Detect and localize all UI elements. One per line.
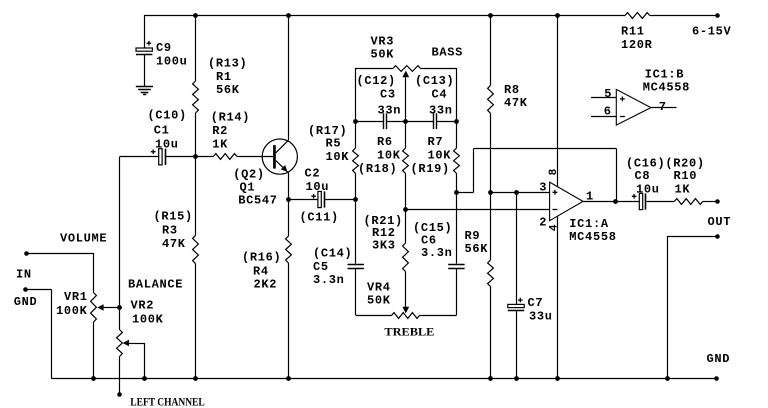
node rail-pin8: [555, 13, 560, 18]
svg-text:(C13): (C13): [415, 74, 454, 88]
svg-text:(R18): (R18): [358, 162, 397, 176]
resistor R3: [193, 235, 199, 263]
wire C5 to treble bottom: [355, 268, 357, 315]
wire C6 to treble bottom: [456, 268, 458, 315]
svg-text:3: 3: [539, 180, 547, 194]
node R9-ground: [488, 376, 493, 381]
resistor R1: [193, 81, 199, 113]
node LEFT CHANNEL stub: [117, 392, 122, 397]
capacitor C9: [136, 48, 152, 51]
svg-text:47K: 47K: [504, 96, 528, 110]
svg-text:(R15): (R15): [154, 210, 193, 224]
wire pin5 stub: [591, 97, 616, 99]
resistor R11: [625, 13, 650, 19]
svg-text:5: 5: [604, 87, 612, 101]
svg-text:MC4558: MC4558: [569, 230, 616, 244]
wire top supply rail left segment: [144, 15, 625, 17]
wire +input to C7: [516, 192, 518, 304]
wire pin6 stub: [591, 116, 616, 118]
node bass row right: [454, 119, 459, 124]
resistor R2: [213, 154, 237, 160]
wire emitter node to R4: [288, 200, 290, 237]
svg-text:6: 6: [604, 105, 612, 119]
wire wiper node to VR2: [119, 308, 121, 330]
wire feedback riser: [473, 148, 475, 192]
node OUT ground terminal: [715, 234, 720, 239]
svg-text:(R16): (R16): [242, 250, 281, 264]
svg-text:3K3: 3K3: [372, 239, 396, 253]
resistor R10: [674, 199, 702, 205]
wire OUT ground horizontal: [668, 236, 718, 238]
wire R8 to +input node: [490, 113, 492, 192]
wire pin7 output stub: [651, 107, 677, 109]
wire bass box right side: [456, 68, 458, 148]
svg-text:C9: C9: [156, 41, 172, 55]
svg-text:10K: 10K: [428, 149, 452, 163]
svg-text:50K: 50K: [371, 47, 395, 61]
svg-text:R2: R2: [212, 124, 228, 138]
capacitor C2: [318, 191, 321, 207]
svg-text:BALANCE: BALANCE: [128, 278, 183, 292]
wire VR1 wiper: [104, 307, 120, 309]
svg-text:IC1:B: IC1:B: [645, 67, 684, 81]
node 6-15V supply terminal: [715, 13, 720, 18]
wire R12 to VR4 wiper: [405, 272, 407, 308]
svg-text:MC4558: MC4558: [643, 81, 690, 95]
svg-text:(C14): (C14): [313, 247, 352, 261]
wire R7node down to C6: [456, 192, 458, 263]
svg-text:(C10): (C10): [148, 109, 187, 123]
potentiometer VR2: [117, 330, 123, 357]
wire VR2 wiper down: [144, 343, 146, 379]
wire +input node to R9: [490, 192, 492, 260]
wire op-amp output: [583, 201, 639, 203]
node output-feedback: [613, 199, 618, 204]
wire bass row mid-left: [387, 121, 406, 123]
wire base node to R3: [195, 157, 197, 236]
wire R6 down: [405, 173, 407, 209]
wire R10 to OUT: [703, 201, 718, 203]
svg-text:GND: GND: [707, 352, 731, 366]
transistor Q1: [262, 139, 297, 174]
svg-text:3.3n: 3.3n: [313, 273, 345, 287]
svg-text:C3: C3: [380, 88, 396, 102]
svg-text:R1: R1: [216, 70, 232, 84]
svg-text:4: 4: [548, 224, 560, 231]
potentiometer VR3: [393, 66, 421, 72]
wire R3 to ground rail: [195, 264, 197, 379]
wire bass box top right: [421, 68, 457, 70]
svg-text:2K2: 2K2: [254, 278, 278, 292]
capacitor C6: [448, 264, 464, 266]
svg-text:100K: 100K: [56, 304, 88, 318]
svg-text:IC1:A: IC1:A: [569, 217, 609, 231]
svg-text:6-15V: 6-15V: [692, 25, 732, 39]
wire emitter to C2: [288, 199, 318, 201]
svg-text:(R14): (R14): [211, 111, 250, 125]
wire feedback down to output: [616, 148, 618, 201]
node VR2wiper-ground: [142, 376, 147, 381]
svg-text:TREBLE: TREBLE: [384, 327, 434, 339]
resistor R4: [286, 236, 292, 263]
svg-text:1K: 1K: [675, 182, 691, 196]
node pin4-ground: [555, 376, 560, 381]
wire VR1 to ground rail: [93, 322, 95, 379]
node bass row left: [353, 119, 358, 124]
svg-text:GND: GND: [14, 295, 38, 309]
svg-text:IN: IN: [16, 267, 32, 281]
VR4 wiper arrow: [402, 307, 409, 314]
wire C1 corner down to wiper node: [119, 157, 121, 308]
wire treble bottom right: [420, 315, 457, 317]
capacitor C7: [508, 304, 524, 307]
svg-text:50K: 50K: [367, 294, 391, 308]
wire bottom ground rail: [51, 378, 717, 380]
svg-text:33n: 33n: [378, 104, 402, 118]
capacitor C1: [159, 149, 162, 165]
wire rail to R1: [195, 15, 197, 81]
wire +input row: [490, 192, 550, 194]
capacitor C5: [348, 264, 364, 266]
wire -input row: [406, 209, 550, 211]
capacitor C3: [383, 113, 385, 129]
svg-text:33u: 33u: [529, 309, 553, 323]
svg-text:10K: 10K: [326, 150, 350, 164]
node wiper-C1 wire: [117, 305, 122, 310]
wire rail to R8: [490, 15, 492, 85]
capacitor C4: [433, 113, 435, 129]
wire VR2 wiper: [129, 343, 145, 345]
wire C2node down to C5: [355, 200, 357, 264]
svg-text:BC547: BC547: [238, 194, 277, 208]
svg-text:(C11): (C11): [300, 210, 339, 224]
node -input R12 top: [403, 207, 408, 212]
svg-text:100K: 100K: [132, 313, 164, 327]
svg-text:LEFT CHANNEL: LEFT CHANNEL: [130, 396, 205, 408]
wire bass row left: [356, 121, 384, 123]
svg-text:47K: 47K: [162, 237, 186, 251]
wire OUT ground down: [667, 236, 669, 379]
svg-text:2: 2: [539, 216, 547, 230]
svg-text:VOLUME: VOLUME: [60, 231, 107, 245]
wire volume wiper to C1: [120, 156, 159, 158]
node OUT terminal: [715, 199, 720, 204]
svg-text:3.3n: 3.3n: [421, 246, 453, 260]
potentiometer VR1: [91, 293, 97, 323]
wire R7node to feedback riser: [457, 192, 474, 194]
capacitor C8: [639, 193, 642, 209]
node GND input terminal: [23, 287, 28, 292]
svg-text:C4: C4: [432, 88, 448, 102]
node R4-ground: [286, 376, 291, 381]
svg-text:C8: C8: [635, 169, 651, 183]
wire C1 to base node: [166, 156, 195, 158]
wire R1 to base node: [195, 113, 197, 157]
node R8-+input: [488, 190, 493, 195]
wire IN to VR1: [26, 253, 94, 255]
svg-text:VR2: VR2: [131, 298, 155, 312]
node R7 feedback: [454, 190, 459, 195]
wire C7 to ground rail: [516, 311, 518, 378]
svg-text:C5: C5: [313, 260, 329, 274]
wire emitter down: [288, 173, 290, 200]
svg-text:120R: 120R: [621, 38, 653, 52]
resistor R7: [454, 148, 460, 173]
VR2 wiper arrow: [123, 340, 129, 347]
wire bass row mid-right: [406, 121, 433, 123]
svg-text:R3: R3: [162, 224, 178, 238]
svg-text:33n: 33n: [429, 104, 453, 118]
svg-text:7: 7: [659, 100, 667, 114]
wire VR1 top: [93, 253, 95, 292]
node +input C7 tap: [514, 190, 519, 195]
wire GND terminal right: [26, 289, 52, 291]
svg-text:BASS: BASS: [432, 46, 464, 60]
wire C9 to rail: [144, 15, 146, 48]
svg-text:R5: R5: [326, 137, 342, 151]
potentiometer VR4: [392, 313, 420, 319]
wire R9 to ground rail: [490, 287, 492, 379]
wire GND down: [51, 289, 53, 378]
wire top supply rail right segment: [650, 15, 718, 17]
svg-text:R11: R11: [621, 25, 645, 39]
VR3 wiper arrow: [402, 71, 409, 78]
op-amp U1 IC1:A: [550, 182, 583, 221]
wire -input node to R12: [405, 210, 407, 243]
node emitter-C2: [286, 197, 291, 202]
node VR1-ground: [91, 376, 96, 381]
svg-text:56K: 56K: [216, 83, 240, 97]
node rail-R1: [193, 13, 198, 18]
wire bass box left side: [355, 68, 357, 148]
wire rail to collector: [288, 15, 290, 140]
wire R4 to ground rail: [288, 263, 290, 379]
wire VR2 bottom to left-channel stub: [119, 357, 121, 395]
wire R5 to C2 node: [355, 173, 357, 199]
svg-text:VR1: VR1: [64, 290, 88, 304]
wire C9 to ground: [144, 55, 146, 87]
node rail-collector: [286, 13, 291, 18]
svg-text:1K: 1K: [212, 138, 228, 152]
wire rail to op-amp pin8: [557, 15, 559, 187]
svg-text:100u: 100u: [156, 54, 188, 68]
wire bass box top left: [356, 68, 393, 70]
node R3-ground: [193, 376, 198, 381]
svg-text:10K: 10K: [377, 149, 401, 163]
op-amp U2 IC1:B: [616, 89, 651, 125]
resistor R6: [403, 148, 409, 173]
resistor R9: [488, 260, 494, 287]
svg-text:R7: R7: [428, 135, 444, 149]
node OUTgnd-rail: [665, 376, 670, 381]
wire bass row right: [437, 121, 457, 123]
resistor R12: [403, 243, 409, 272]
svg-text:56K: 56K: [465, 242, 489, 256]
wire VR3 wiper down: [405, 77, 407, 121]
node C7-ground: [514, 376, 519, 381]
wire pin4 down: [557, 216, 559, 378]
svg-text:C2: C2: [305, 166, 321, 180]
wire C2 to tone network: [325, 199, 356, 201]
svg-text:R6: R6: [377, 135, 393, 149]
wire treble bottom left: [356, 315, 392, 317]
node IN terminal: [24, 251, 29, 256]
svg-text:(R13): (R13): [208, 57, 247, 71]
wire bass center to R6: [405, 121, 407, 148]
svg-text:(C12): (C12): [357, 74, 396, 88]
svg-text:(Q2): (Q2): [233, 167, 265, 181]
wire C8 to R10: [647, 201, 675, 203]
wire R2 to Q1 base: [237, 156, 273, 158]
node rail-R8: [488, 13, 493, 18]
svg-text:C7: C7: [528, 296, 544, 310]
wire base node to R2: [195, 156, 213, 158]
VR1 wiper arrow: [97, 304, 103, 311]
wire feedback horizontal: [474, 148, 617, 150]
svg-text:R9: R9: [465, 229, 481, 243]
resistor R5: [353, 148, 359, 173]
resistor R8: [488, 85, 494, 113]
ground: [136, 86, 153, 88]
svg-text:(R19): (R19): [411, 162, 450, 176]
node base junction: [193, 154, 198, 159]
svg-text:8: 8: [548, 168, 560, 175]
node bass row center: [403, 119, 408, 124]
svg-text:Q1: Q1: [240, 180, 256, 194]
node C2-left tone wire: [353, 197, 358, 202]
svg-text:OUT: OUT: [708, 215, 732, 229]
svg-text:C1: C1: [154, 124, 170, 138]
node bottom rail right end: [714, 376, 719, 381]
wire R7 down: [456, 173, 458, 192]
svg-text:R10: R10: [674, 169, 698, 183]
svg-text:VR3: VR3: [371, 34, 395, 48]
svg-text:R4: R4: [253, 264, 269, 278]
